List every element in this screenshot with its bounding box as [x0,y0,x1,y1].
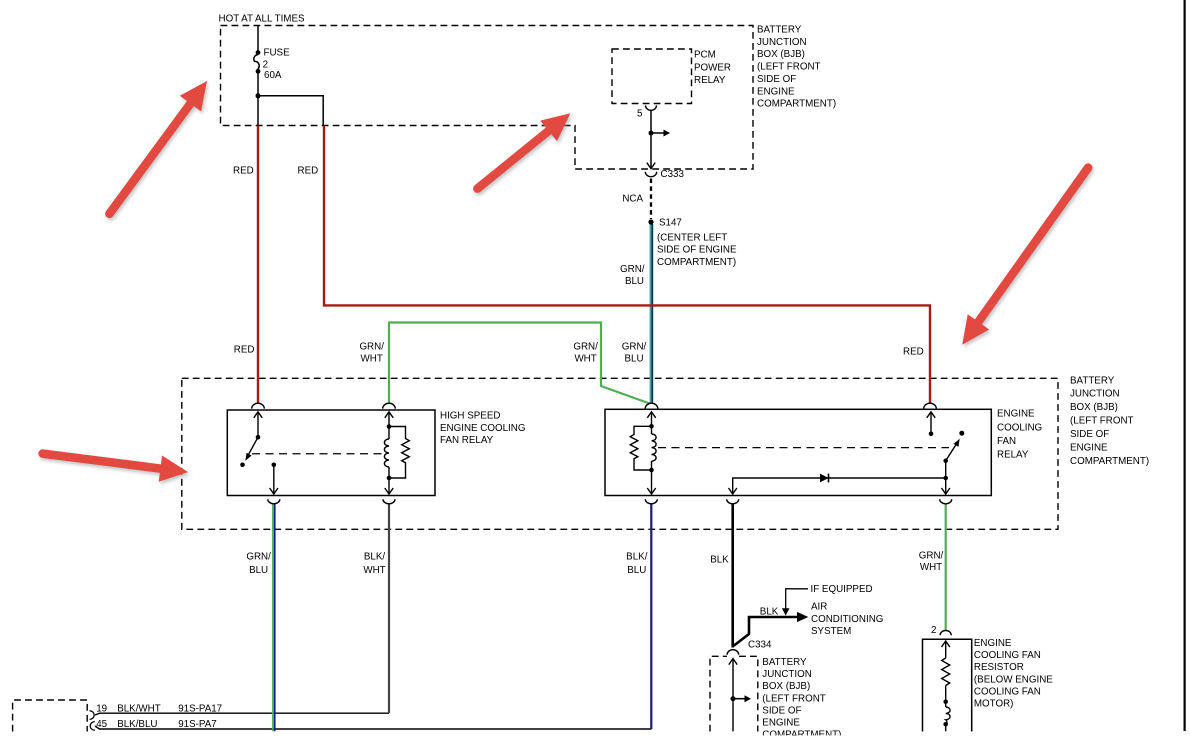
pin 45 connector arc [90,722,95,731]
relay K1 switch [246,412,262,459]
relay K2 pin arc bottom-coil [645,499,657,504]
pin 5 connector arc of PCM relay [646,105,657,110]
text GRN/WHT label 1 [359,342,384,365]
svg-text:SIDE OF ENGINE: SIDE OF ENGINE [657,245,737,256]
wire NCA dashed [650,179,652,220]
wire GRN/WHT below relay K2 to resistor [945,504,947,631]
relay K2 coil with parallel resistor [630,412,656,494]
svg-text:COMPARTMENT): COMPARTMENT) [657,257,736,268]
PCM module box (bottom left, dashed) [13,700,88,732]
text BLK/WHT below relay K1 [363,552,385,576]
relay K1 pin arc top-coil [383,403,396,408]
svg-text:RED: RED [903,346,924,357]
svg-text:RESISTOR: RESISTOR [974,662,1024,673]
svg-text:SIDE OF: SIDE OF [762,705,801,716]
svg-text:BLU: BLU [624,354,643,365]
text HOT AT ALL TIMES [219,13,305,24]
PCM power relay box U-PCM (dashed) [612,49,692,104]
svg-text:JUNCTION: JUNCTION [757,37,807,48]
svg-text:SIDE OF: SIDE OF [1070,429,1109,440]
svg-text:WHT: WHT [574,354,596,365]
annotation arrow 1 (to fuse box) [109,81,207,214]
wire fuse branch right [258,96,323,126]
svg-text:C334: C334 [748,640,772,651]
bottom white cutoff [0,735,1190,751]
svg-text:HIGH SPEED: HIGH SPEED [440,411,500,422]
svg-text:COOLING FAN: COOLING FAN [974,686,1041,697]
if-equipped pointer line [786,589,808,610]
relay K2 pin arc bottom-switch [940,499,952,504]
svg-text:IF EQUIPPED: IF EQUIPPED [811,584,873,595]
svg-text:BLU: BLU [625,276,644,287]
battery junction box (bottom, dashed outline) [710,656,758,731]
svg-text:RED: RED [298,165,319,176]
wire RED fuse to high speed relay [257,126,259,404]
svg-text:BOX (BJB): BOX (BJB) [1070,402,1118,413]
svg-text:JUNCTION: JUNCTION [1070,389,1120,400]
svg-text:FAN RELAY: FAN RELAY [440,435,494,446]
svg-text:COOLING: COOLING [997,422,1042,433]
annotation arrow 4 (to high speed relay) [43,454,188,482]
svg-text:WHT: WHT [920,562,942,573]
svg-text:BLK: BLK [760,606,779,617]
svg-text:2: 2 [931,625,936,636]
wire BLK branch to air conditioning system [733,612,809,647]
svg-text:BATTERY: BATTERY [757,25,802,36]
text NCA [622,194,643,205]
svg-text:BATTERY: BATTERY [1070,375,1115,386]
annotation arrows (red) [0,0,1,1]
text battery junction box (top right) [757,25,836,110]
svg-text:NCA: NCA [622,194,643,205]
fuse F2 60A [254,26,259,96]
high speed engine cooling fan relay box K1 [227,410,435,496]
relay K1 pin arc bottom-left [268,499,280,504]
svg-text:BATTERY: BATTERY [762,657,807,668]
relay K1 linkage dashed [252,453,384,455]
text RED labels top [233,165,318,176]
text RED labels middle [234,344,924,357]
pin arrow down at box edge above C333 [647,163,655,169]
svg-text:RELAY: RELAY [694,75,726,86]
svg-text:COMPARTMENT): COMPARTMENT) [757,99,836,110]
svg-text:BLK/: BLK/ [626,552,648,563]
svg-text:ENGINE: ENGINE [974,638,1012,649]
bottom BJB pin arrow up [729,659,737,732]
relay K2 pin arc bottom-diode [727,499,739,504]
svg-text:CONDITIONING: CONDITIONING [811,614,883,625]
svg-text:GRN/: GRN/ [246,552,271,563]
svg-text:FAN: FAN [997,436,1016,447]
svg-text:RED: RED [233,165,254,176]
svg-text:PCM: PCM [694,49,716,60]
svg-text:5: 5 [637,108,643,119]
node junction with right arrow (bottom box) [731,695,752,702]
text battery junction box (middle right) [1070,375,1149,467]
svg-text:91S-PA17: 91S-PA17 [178,704,222,715]
svg-text:BLK/BLU: BLK/BLU [117,719,157,730]
text BLK/BLU below relay K2 [626,552,648,576]
svg-text:ENGINE: ENGINE [997,409,1035,420]
svg-text:ENGINE: ENGINE [1070,442,1108,453]
wire pin45 BLK/BLU horizontal [95,726,651,729]
wire fuse junction down to box edge [257,96,259,126]
text GRN/BLU below relay K1 [246,552,271,576]
resistor R1 pin 2 arc [940,631,951,636]
text GRN/BLU upper [620,264,645,287]
page right border [1183,0,1185,731]
text air conditioning system [811,602,883,638]
svg-text:MOTOR): MOTOR) [974,699,1014,710]
svg-text:S147: S147 [659,218,682,229]
svg-text:ENGINE: ENGINE [757,86,795,97]
wire RED fuse to engine cooling fan relay (long) [324,126,930,404]
text pin 2 [931,625,936,636]
text C333 [661,169,685,180]
text engine cooling fan resistor [974,638,1053,710]
svg-text:SYSTEM: SYSTEM [811,626,851,637]
wire pin19 BLK/WHT horizontal [95,713,389,715]
relay K1 pin arc bottom-coil [383,499,395,504]
wire BLK/WHT gray below relay K1 [388,504,390,713]
wire GRN/WHT relay coil jumper [389,323,650,404]
node splice S147 [648,219,653,224]
svg-text:AIR: AIR [811,602,827,613]
svg-text:BOX (BJB): BOX (BJB) [762,681,810,692]
text BLK label [710,554,729,565]
svg-text:RELAY: RELAY [997,450,1029,461]
svg-text:(LEFT FRONT: (LEFT FRONT [762,693,826,704]
svg-text:GRN/: GRN/ [622,342,647,353]
resistor R1 element [942,641,951,731]
text pin 45 row [96,719,216,730]
wire PCM relay pin5 down [650,111,652,169]
relay K2 pin arc top-coil [645,403,658,408]
engine cooling fan relay box K2 [605,409,991,495]
text PCM power relay [694,49,731,86]
svg-text:45: 45 [96,719,107,730]
text S147 [659,218,682,229]
battery junction box (top, dashed outline) [221,26,754,170]
svg-text:BLU: BLU [627,565,646,576]
text C334 [748,640,772,651]
annotation arrow 2 (to PCM relay) [477,113,570,188]
text battery junction box (bottom) [762,657,841,741]
diode D1 line [729,478,946,494]
svg-text:JUNCTION: JUNCTION [762,669,812,680]
wire GRN/BLU two-tone below relay K1 [273,504,275,731]
relay K1 pin arc top-left [252,403,265,408]
node junction with right arrow (top box) [649,130,671,137]
engine cooling fan resistor box R1 [923,639,972,731]
wire GRN/BLU teal S147 to cooling fan relay [651,224,653,403]
battery junction box (middle, dashed outline) [182,378,1058,529]
relay K2 linkage dashed [658,447,949,449]
pin 19 connector arc [90,711,95,720]
svg-text:(BELOW ENGINE: (BELOW ENGINE [974,674,1053,685]
svg-text:BLK/WHT: BLK/WHT [117,704,161,715]
text GRN/WHT below relay K2 [919,551,944,573]
svg-text:GRN/: GRN/ [620,264,645,275]
svg-text:(CENTER LEFT: (CENTER LEFT [657,232,727,243]
text GRN/BLU label above relay K2 [622,342,647,365]
svg-text:ENGINE: ENGINE [762,718,800,729]
text pin 19 row [96,704,222,715]
relay K2 pin arc top-switch [924,403,937,408]
svg-text:19: 19 [96,704,107,715]
svg-text:(LEFT FRONT: (LEFT FRONT [757,62,821,73]
text S147 location [657,232,737,268]
svg-text:BLK/: BLK/ [364,552,386,563]
svg-text:COMPARTMENT): COMPARTMENT) [1070,456,1149,467]
svg-text:GRN/: GRN/ [573,342,598,353]
svg-text:91S-PA7: 91S-PA7 [178,719,216,730]
diode D1 [820,474,829,483]
svg-text:BOX (BJB): BOX (BJB) [757,49,805,60]
connector C334 arc [727,650,739,655]
svg-text:POWER: POWER [694,63,731,74]
text pin 5 [637,108,643,119]
wire BLK/BLU navy below relay K2 [650,504,652,729]
svg-text:(LEFT FRONT: (LEFT FRONT [1070,416,1134,427]
svg-text:FUSE: FUSE [264,47,291,58]
node fuse output junction [256,93,261,98]
wire BLK thick to C334 [731,504,734,648]
connector C333 arc [645,172,656,177]
svg-text:BLK: BLK [710,554,729,565]
svg-text:60A: 60A [264,70,282,81]
svg-text:GRN/: GRN/ [359,342,384,353]
svg-text:HOT AT ALL TIMES: HOT AT ALL TIMES [219,13,305,24]
text IF EQUIPPED [811,584,873,595]
annotation arrow 3 (to BJB corner) [962,168,1088,345]
relay K1 output stem with down arrow [270,466,278,494]
svg-text:GRN/: GRN/ [919,551,944,562]
svg-text:RED: RED [234,344,255,355]
text GRN/WHT label 2 [573,342,598,365]
text BLK at branch [760,606,779,617]
text fuse labels [263,47,290,81]
text high speed engine cooling fan relay [440,411,525,447]
svg-text:C333: C333 [661,169,685,180]
relay K2 switch [927,412,959,494]
svg-text:ENGINE COOLING: ENGINE COOLING [440,423,525,434]
svg-text:BLU: BLU [249,565,268,576]
text engine cooling fan relay [997,409,1042,461]
svg-text:WHT: WHT [361,354,383,365]
relay K1 coil with parallel resistor [384,412,409,494]
svg-text:SIDE OF: SIDE OF [757,74,796,85]
svg-text:WHT: WHT [363,565,385,576]
svg-text:COOLING FAN: COOLING FAN [974,650,1041,661]
